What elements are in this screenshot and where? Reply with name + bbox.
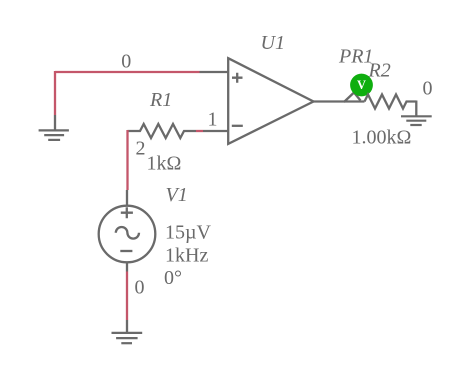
svg-text:V1: V1 bbox=[166, 184, 188, 206]
V1 bottom lead bbox=[126, 262, 128, 271]
op-amp U1 body bbox=[228, 58, 313, 144]
probe PR1 arrow bbox=[344, 93, 361, 103]
ground (left) bbox=[39, 130, 69, 140]
wire: node 2 vertical (R1 corner down to V1) bbox=[126, 130, 128, 190]
op-amp U1 pin stub (- input) bbox=[203, 130, 228, 132]
probe PR1 circle bbox=[350, 74, 373, 97]
resistor R2 bbox=[365, 95, 417, 109]
wire: short red segment R1 to op-amp - stub bbox=[196, 130, 203, 132]
svg-text:V: V bbox=[357, 78, 366, 92]
ground (bottom) bbox=[112, 333, 143, 343]
svg-text:0: 0 bbox=[135, 276, 145, 298]
svg-text:R1: R1 bbox=[149, 89, 172, 111]
svg-text:0: 0 bbox=[121, 51, 131, 73]
svg-text:R2: R2 bbox=[368, 59, 391, 81]
op-amp U1 pin stub (+ input) bbox=[200, 71, 229, 73]
wire: R2 to right ground bbox=[415, 101, 417, 117]
svg-text:2: 2 bbox=[136, 138, 146, 160]
svg-text:0: 0 bbox=[423, 78, 433, 100]
svg-text:1.00kΩ: 1.00kΩ bbox=[352, 127, 412, 149]
svg-text:15µV: 15µV bbox=[165, 222, 212, 244]
svg-text:U1: U1 bbox=[261, 32, 285, 54]
wire: node 0 top horizontal (ground to op-amp + input) bbox=[55, 71, 200, 73]
wire: node 0 vertical (V1 to bottom ground) bbox=[126, 272, 128, 321]
source V1 body bbox=[99, 206, 156, 263]
svg-text:1kHz: 1kHz bbox=[165, 245, 208, 267]
svg-text:1kΩ: 1kΩ bbox=[147, 153, 182, 175]
V1 top lead bbox=[126, 190, 128, 206]
wire: gray lead into left ground bbox=[54, 115, 56, 130]
wire: op-amp output to R2 bbox=[314, 100, 365, 102]
resistor R1 bbox=[128, 124, 197, 138]
svg-text:0°: 0° bbox=[164, 267, 182, 289]
ground (right) bbox=[401, 116, 432, 125]
svg-text:1: 1 bbox=[208, 108, 218, 130]
gray lead into bottom ground bbox=[126, 320, 128, 333]
wire: node 0 vertical drop to left ground bbox=[54, 71, 56, 115]
